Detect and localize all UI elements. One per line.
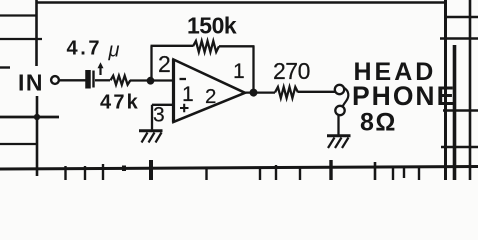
ground G1 xyxy=(139,131,163,143)
wire apex to R3 xyxy=(245,91,275,93)
wire feedback top left xyxy=(151,45,194,47)
svg-text:IN: IN xyxy=(18,70,44,96)
wire feedback top right xyxy=(219,45,255,47)
resistor R2 150k zigzag xyxy=(193,41,219,52)
node output junction xyxy=(250,89,258,97)
wire input terminal to C1 xyxy=(60,79,86,81)
svg-text:μ: μ xyxy=(108,40,120,62)
svg-text:150k: 150k xyxy=(187,13,237,39)
svg-text:270: 270 xyxy=(273,58,310,84)
svg-text:1: 1 xyxy=(182,83,194,106)
svg-text:47k: 47k xyxy=(100,92,140,114)
op-amp plus sign xyxy=(180,104,189,113)
wire R1 to op-amp pin 2 xyxy=(130,79,173,81)
wire pin3 stub xyxy=(152,105,173,130)
node IN input terminal xyxy=(51,76,59,84)
svg-text:PHONE: PHONE xyxy=(352,81,456,111)
wire R3 to jack xyxy=(298,91,335,93)
node inverting input junction xyxy=(147,77,155,85)
op-amp U1 triangle xyxy=(174,60,246,123)
wire jack to ground xyxy=(337,115,339,135)
svg-text:1: 1 xyxy=(233,60,245,83)
connector J1 headphone jack tip xyxy=(335,85,344,94)
svg-text:2: 2 xyxy=(205,85,216,108)
resistor R1 47k zigzag xyxy=(111,76,131,85)
svg-text:3: 3 xyxy=(153,104,165,127)
capacitor C1 4.7u electrolytic xyxy=(88,62,104,88)
resistor R3 270 zigzag xyxy=(275,87,298,98)
svg-text:8Ω: 8Ω xyxy=(360,109,397,137)
op-amp minus sign xyxy=(180,78,187,80)
svg-text:4.7: 4.7 xyxy=(67,38,103,60)
wire feedback up xyxy=(150,46,152,81)
wire feedback down to output node xyxy=(252,46,254,93)
svg-text:2: 2 xyxy=(158,51,171,77)
connector J1 curved contact xyxy=(343,88,349,107)
wire C1 to R1 xyxy=(95,79,110,81)
ground G2 xyxy=(327,136,351,148)
connector J1 headphone jack sleeve xyxy=(335,106,344,115)
